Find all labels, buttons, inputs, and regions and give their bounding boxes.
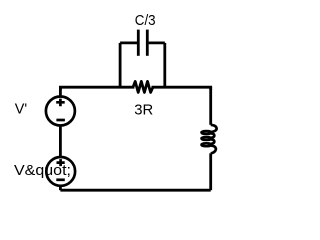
capacitor branch left vertical wire: [119, 43, 122, 87]
wire right vertical upper: [209, 87, 212, 125]
svg-text:C/3: C/3: [135, 12, 156, 29]
svg-text:V&quot;: V&quot;: [14, 162, 71, 179]
wire bottom: [60, 189, 210, 192]
inductor loop 2: [201, 137, 211, 140]
capacitor branch right vertical wire: [163, 43, 166, 87]
minus sign of V'': [56, 178, 65, 181]
wire top-left segment: [60, 87, 133, 88]
wire top-right segment: [153, 87, 211, 88]
wire between sources: [59, 126, 62, 158]
capacitor C/3 left plate: [137, 30, 140, 56]
source V' circle: [46, 97, 75, 126]
plus sign of V': [56, 99, 64, 107]
plus sign of V'': [57, 159, 65, 166]
inductor coil exit curve: [211, 146, 216, 154]
wire left vertical into source V': [59, 87, 62, 96]
inductor loop 1-2 connector: [211, 133, 214, 137]
source V'' circle: [46, 157, 75, 186]
capacitor branch right horizontal wire: [149, 42, 165, 45]
inductor loop 1: [201, 131, 211, 134]
wire right vertical lower: [209, 153, 212, 190]
resistor 3R zigzag: [133, 81, 153, 92]
capacitor branch left horizontal wire: [120, 42, 137, 45]
inductor loop 2-3 connector: [211, 139, 214, 143]
capacitor C/3 right plate: [146, 30, 149, 56]
inductor coil entry curve: [211, 125, 217, 132]
wire source bottom stub: [59, 185, 62, 190]
svg-text:V': V': [15, 101, 28, 118]
minus sign of V': [56, 119, 65, 122]
svg-text:3R: 3R: [134, 101, 153, 118]
inductor loop 3: [201, 143, 211, 146]
